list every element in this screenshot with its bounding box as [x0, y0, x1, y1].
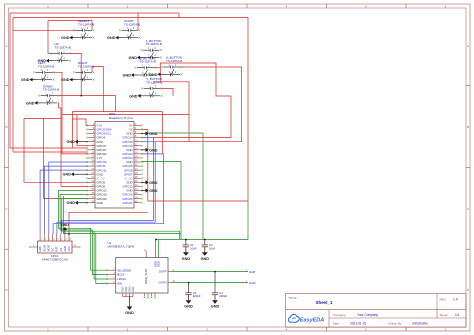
wire A_BUTTON chain — [155, 67, 241, 142]
ground GND header pin 14 — [141, 148, 158, 153]
svg-text:CS: CS — [59, 248, 63, 252]
wire START drop — [137, 13, 139, 30]
wire bus join right drop — [161, 112, 163, 154]
wire X_BUTTON chain — [154, 63, 231, 138]
svg-text:EasyEDA: EasyEDA — [300, 318, 324, 324]
wire LRCLK leg — [94, 231, 108, 279]
ground GND Y_BUTTON — [129, 94, 144, 98]
wire DOWN row — [57, 96, 116, 112]
capacitor C1 10uF — [68, 95, 466, 328]
svg-text:A: A — [467, 44, 469, 48]
svg-text:GND: GND — [129, 56, 138, 60]
svg-text:GND: GND — [63, 173, 72, 177]
pushbutton SW8 (RIGHT) — [76, 61, 95, 81]
svg-text:GND: GND — [149, 132, 158, 136]
wire net 5V bus — [13, 17, 248, 19]
svg-text:christruebe: christruebe — [412, 321, 428, 325]
wire SPI left 1 — [49, 162, 88, 234]
svg-text:GND: GND — [149, 189, 158, 193]
svg-text:GND: GND — [211, 305, 220, 309]
ground GND U1 — [125, 301, 134, 315]
svg-text:TS-1187A-B: TS-1187A-B — [43, 88, 59, 92]
capacitor C2 10uF — [68, 95, 466, 328]
wire SELECT drop — [91, 21, 93, 31]
svg-text:TS-1187A-B: TS-1187A-B — [146, 42, 162, 46]
svg-text:TS-1187A-B: TS-1187A-B — [55, 45, 71, 49]
wire 3V3 link — [72, 119, 88, 125]
wire RIGHT link — [92, 67, 103, 112]
svg-text:MAX98357A_TQFN: MAX98357A_TQFN — [108, 245, 135, 249]
IC U1 MAX98357A_TQFN audio amplifier — [106, 241, 176, 301]
wire UP pin2 link — [69, 53, 82, 95]
svg-text:Sheet_1: Sheet_1 — [316, 300, 333, 305]
svg-text:SCLK: SCLK — [42, 244, 46, 251]
node A_BUTTON open pins — [161, 66, 183, 75]
svg-text:TITLE:: TITLE: — [288, 296, 297, 300]
svg-text:GND: GND — [149, 181, 158, 185]
wire OUTN — [172, 282, 246, 284]
svg-text:GND: GND — [149, 148, 158, 152]
ground GND SELECT — [61, 36, 76, 40]
svg-text:GND: GND — [129, 94, 138, 98]
wire OUTP — [172, 271, 246, 273]
ground GND X_BUTTON — [129, 56, 144, 60]
node UP open pins — [50, 52, 72, 61]
svg-text:VDD: VDD — [157, 261, 161, 267]
svg-text:Company:: Company: — [333, 313, 347, 317]
node Y_BUTTON open pins — [141, 88, 163, 97]
svg-text:DC: DC — [51, 248, 55, 252]
wire GPIO17 row — [10, 147, 88, 149]
wire SPI right 2 — [57, 142, 155, 234]
wire 5V down — [247, 201, 249, 240]
wire net 5V right vertical — [247, 18, 249, 202]
svg-text:Raspberry Pi 3 A+: Raspberry Pi 3 A+ — [109, 116, 134, 120]
pushbutton SW4 (UP) — [52, 42, 71, 62]
wire VDD stub b — [158, 240, 160, 258]
wire staircase left — [24, 119, 88, 183]
pushbutton SW3 (X_BUTTON) — [143, 39, 162, 59]
svg-text:B: B — [467, 125, 469, 129]
ground GND header left pin 25 — [63, 172, 89, 176]
ground GND UP — [38, 59, 53, 63]
ground GND C1 — [182, 247, 191, 261]
svg-text:GND: GND — [125, 311, 134, 315]
svg-text:OutP: OutP — [249, 270, 256, 274]
svg-text:TS-1187A-B: TS-1187A-B — [38, 64, 54, 68]
wire C2 stub — [204, 240, 206, 245]
node SELECT open pins — [73, 29, 95, 38]
svg-text:GND: GND — [132, 286, 135, 292]
svg-text:TS-1187A-B: TS-1187A-B — [166, 59, 182, 63]
wire DIN leg — [96, 234, 108, 284]
title block — [286, 294, 466, 328]
svg-text:VCC: VCC — [67, 246, 71, 252]
svg-text:Drawn By:: Drawn By: — [389, 321, 403, 325]
wire bus4 — [62, 114, 189, 116]
wire left bus2 vertical — [12, 18, 14, 153]
svg-text:GND: GND — [26, 101, 35, 105]
wire B_BUTTON chain c — [154, 82, 190, 142]
wire VDD stub a — [154, 240, 156, 258]
capacitor C4 220pF — [68, 95, 466, 328]
svg-text:LRCLK: LRCLK — [117, 277, 126, 281]
ground GND C3 — [184, 295, 193, 309]
svg-text:GND: GND — [61, 36, 70, 40]
wire left bus vertical — [9, 13, 11, 148]
svg-text:BCLK: BCLK — [117, 273, 124, 277]
wire I2S to amp 1 — [58, 191, 108, 271]
svg-text:TS-1187A-B: TS-1187A-B — [124, 22, 140, 26]
svg-text:220pF: 220pF — [193, 294, 201, 298]
node junction dots — [68, 95, 216, 284]
svg-text:10uF: 10uF — [190, 246, 197, 250]
ground GND LEFT — [21, 78, 36, 82]
wire staircase top — [24, 118, 61, 120]
svg-text:B: B — [5, 125, 7, 129]
ground GND B_BUTTON — [123, 73, 138, 77]
node X_BUTTON open pins — [141, 49, 163, 58]
wire C3 stub — [188, 283, 190, 293]
svg-text:1.0: 1.0 — [453, 298, 458, 302]
wire net ROW1 drop — [178, 13, 180, 18]
node START open pins — [119, 29, 141, 38]
svg-text:Sheet:: Sheet: — [440, 313, 449, 317]
svg-text:Your Company: Your Company — [357, 313, 378, 317]
wire VCC fpc — [69, 212, 148, 234]
wire bus join — [72, 111, 162, 113]
wire right leg b — [141, 162, 181, 240]
ground GND FPC — [61, 223, 69, 234]
svg-text:TS-1187A-B: TS-1187A-B — [78, 64, 94, 68]
wire LEFT link — [52, 72, 88, 154]
ground GND A_BUTTON — [149, 72, 164, 76]
wire net 5V header — [141, 130, 148, 202]
ground GND header pin 6 — [141, 131, 158, 136]
svg-text:GND: GND — [61, 78, 70, 82]
svg-text:A: A — [5, 44, 7, 48]
svg-text:GND: GND — [67, 140, 76, 144]
wire B_BUTTON chain b — [154, 63, 161, 82]
ground GND header pin 30 — [141, 180, 158, 185]
svg-text:TS-1187A-B: TS-1187A-B — [146, 81, 162, 85]
svg-text:SD_MODE: SD_MODE — [117, 268, 131, 272]
wire 5V rail — [156, 239, 249, 241]
connector FPC1 AFA07-S08FCC-00 — [29, 234, 80, 261]
svg-text:DIN: DIN — [117, 282, 122, 286]
svg-text:GND: GND — [21, 78, 30, 82]
ground GND header pin 34 — [141, 188, 158, 193]
svg-text:GND: GND — [63, 246, 67, 252]
node B_BUTTON open pins — [135, 67, 157, 76]
wire GPIO27 row — [13, 151, 88, 153]
svg-text:GND: GND — [61, 223, 69, 227]
svg-text:RST: RST — [55, 246, 59, 252]
ground GND DOWN — [26, 101, 41, 105]
wire net 5V return — [148, 200, 248, 202]
svg-text:OutN: OutN — [249, 281, 256, 285]
wire bus join drop — [71, 112, 73, 148]
node LEFT open pins — [33, 71, 55, 80]
wire GPIO11 link — [77, 115, 88, 146]
pushbutton SW5 (A_BUTTON) — [164, 56, 183, 76]
svg-text:2021-01-31: 2021-01-31 — [350, 321, 367, 325]
EasyEDA logo — [288, 314, 324, 323]
svg-text:GND: GND — [182, 257, 191, 261]
svg-text:GND: GND — [107, 36, 116, 40]
svg-text:MOSI: MOSI — [46, 245, 50, 252]
ground GND START — [107, 36, 122, 40]
svg-text:10uF: 10uF — [209, 246, 216, 250]
ground GND RIGHT — [61, 78, 76, 82]
svg-text:LED: LED — [38, 246, 42, 251]
wire C1 stub — [185, 240, 187, 245]
svg-text:1/1: 1/1 — [455, 313, 460, 317]
pushbutton SW2 (START) — [122, 19, 141, 39]
capacitor C3 220pF — [68, 95, 466, 328]
wire UP column — [48, 21, 52, 54]
ground GND C4 — [211, 295, 220, 309]
svg-text:GND: GND — [123, 74, 132, 78]
wire staircase mid — [44, 119, 88, 199]
svg-text:GND: GND — [67, 201, 76, 205]
svg-text:OUTN: OUTN — [159, 281, 167, 285]
wire SPI right 1 — [61, 138, 153, 234]
svg-text:Date:: Date: — [333, 321, 340, 325]
svg-text:GND: GND — [97, 201, 103, 205]
wire I2S to amp 2 — [60, 195, 108, 275]
wire right leg c — [146, 133, 203, 240]
wire B_BUTTON chain — [154, 67, 161, 69]
wire SELECT row1 feed — [13, 29, 76, 31]
wire SPI right 3 — [53, 154, 163, 234]
wire SPI left 2 — [44, 166, 88, 234]
svg-text:GND: GND — [201, 257, 210, 261]
svg-text:TS-1187A-B: TS-1187A-B — [140, 60, 156, 64]
ground GND C2 — [201, 247, 210, 261]
node RIGHT open pins — [73, 71, 95, 80]
pushbutton SW9 (Y_BUTTON) — [144, 77, 163, 97]
node OutP port — [245, 270, 256, 274]
svg-text:GPIO21: GPIO21 — [122, 201, 133, 205]
pushbutton SW6 (B_BUTTON) — [137, 56, 156, 76]
svg-text:TS-1187A-B: TS-1187A-B — [78, 22, 94, 26]
node DOWN open pins — [38, 95, 60, 104]
ground GND header left pin 9 — [67, 140, 89, 144]
svg-text:OUTP: OUTP — [159, 270, 167, 274]
wire net ROW1 bus — [10, 12, 179, 14]
wire DOWN pin4 link — [59, 103, 89, 186]
svg-text:GND: GND — [184, 305, 193, 309]
connector RPI1 Raspberry Pi 3 A+ 40-pin header — [86, 112, 143, 208]
pushbutton SW1 (SELECT) — [76, 19, 95, 39]
wire SPI left 3 — [40, 170, 88, 234]
pushbutton SW10 (DOWN) — [41, 84, 60, 104]
svg-text:REV:: REV: — [440, 298, 447, 302]
wire top bus3 — [48, 20, 92, 22]
ground GND header left pin 39 — [67, 201, 89, 205]
node OutN port — [245, 281, 256, 285]
wire Y_BUTTON chain — [160, 89, 173, 97]
svg-text:220pF: 220pF — [219, 294, 227, 298]
wire C4 stub — [214, 272, 216, 293]
svg-text:AFA07-S08FCC-00: AFA07-S08FCC-00 — [42, 257, 68, 261]
pushbutton SW7 (LEFT) — [36, 61, 55, 81]
svg-text:GAIN_SLOT: GAIN_SLOT — [144, 268, 148, 284]
wire I2S long a — [62, 199, 180, 240]
wire I2S long b — [64, 196, 182, 234]
